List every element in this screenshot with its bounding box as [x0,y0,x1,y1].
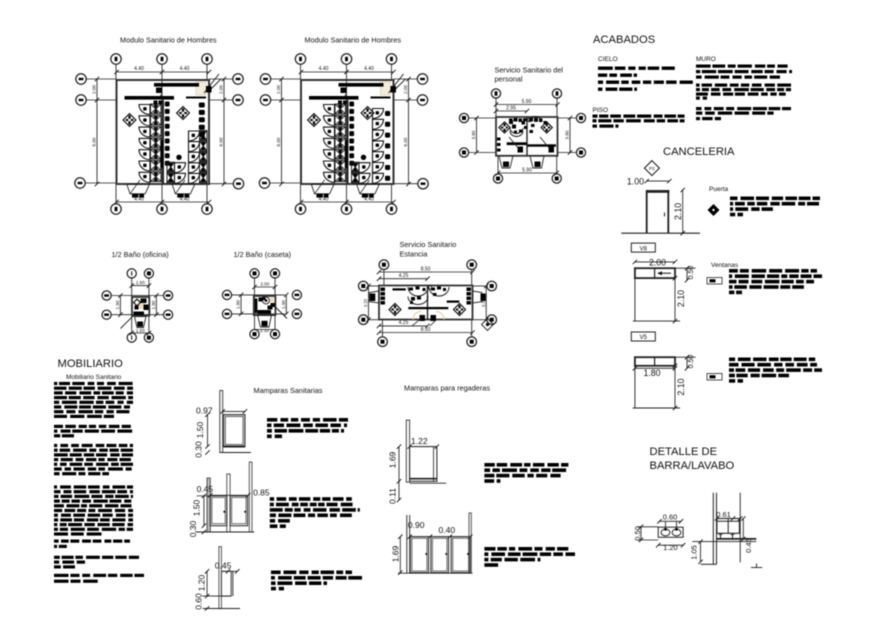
plan 1 bottom dimension 4.40 4.40 [117,201,210,203]
caseta door swing [275,307,287,319]
svg-text:1.60: 1.60 [136,280,145,285]
barra right line [739,493,741,563]
svg-text:1.60: 1.60 [136,328,145,333]
plan 2 grid bubbles left [260,74,270,84]
personal grid bubbles [491,89,500,98]
regadera 2 ground [398,572,473,574]
regadera 2 wall posts [406,515,408,573]
svg-text:4.40: 4.40 [180,66,190,72]
plan 2 middle wall [347,100,349,184]
personal threshold right [530,156,544,168]
svg-text:1.20: 1.20 [197,574,207,591]
estancia left dimension [368,286,370,320]
svg-text:6.00: 6.00 [92,137,97,146]
plan 2 black door block [391,86,397,93]
mampara 1 ground [220,452,251,454]
plan 2 room walls [301,80,394,184]
oficina threshold [135,317,147,328]
svg-text:6.00: 6.00 [219,137,224,146]
personal diamond drains [499,122,510,133]
V5 height dimension 0.50 [675,356,696,358]
svg-text:1.50: 1.50 [191,499,201,516]
svg-text:2.00: 2.00 [649,257,666,267]
V5 window elevation [635,357,675,366]
plan 1 top dimension 4.40 4.40 [117,71,210,73]
plan 2 grid lines [300,64,302,80]
plan 1 middle wall bar [160,140,163,168]
personal bottom dimension 5.90 [498,172,557,174]
oficina right dimension 1.90 [155,296,157,315]
plan 2 middle wc column [349,102,354,107]
estancia door swing diagonal [412,315,425,326]
svg-text:0.61: 0.61 [716,510,731,519]
text block MURO [696,65,711,68]
text block PISO [593,115,598,118]
personal fixtures top cluster [509,120,513,124]
plan 2 door swing lines bottom [315,180,325,194]
svg-text:PISO: PISO [593,107,609,114]
svg-text:0.97: 0.97 [196,406,213,416]
ventana icon V8 [707,278,722,285]
plan 2 floor drain [361,155,366,160]
barra supports [720,533,722,539]
door height dimension 2.10 [682,190,684,233]
plan 1 right stall column [189,131,200,141]
lavabo dim 0.50 [637,526,658,528]
plan 2 middle wall top blobs [338,101,342,105]
svg-text:6.00: 6.00 [403,137,408,146]
mampara 2 ground [196,531,254,533]
svg-text:Mamparas Sanitarias: Mamparas Sanitarias [254,386,323,395]
oficina grid bubbles [127,269,136,278]
svg-text:8.50: 8.50 [421,266,431,272]
estancia right counter bar [447,301,460,303]
svg-text:4.40: 4.40 [134,66,144,72]
caseta top dimension 2.00 [255,286,276,288]
plan 1 middle wall [162,100,164,184]
personal top dimension 5.90 [496,104,558,106]
oficina grid lines [131,278,133,333]
plan 1 bottom middle stalls [175,163,186,173]
estancia right protrusion [473,291,482,303]
text block mobiliario p7 [54,574,69,577]
svg-text:1.80: 1.80 [643,368,660,378]
svg-text:4.40: 4.40 [364,66,374,72]
V5 sill lines and 2.10 [634,366,636,408]
plan 1 black door block [206,86,212,93]
oficina bottom dimension 1.60 [132,332,149,334]
plan 1 grid bubbles top [111,54,121,64]
caseta grid lines [254,278,256,330]
caseta threshold [258,315,272,327]
caseta grid bubbles [250,269,259,278]
estancia left protrusion [370,291,380,303]
personal room walls [496,117,558,156]
svg-text:0.60: 0.60 [194,593,204,610]
svg-text:Puerta: Puerta [709,186,729,193]
svg-text:3.20: 3.20 [363,298,368,307]
personal left dimension 3.80 [476,118,478,153]
oficina top dimension 1.60 [132,285,149,287]
plan 1 cream door leaf [196,82,206,95]
estancia center fixtures [408,287,428,296]
text block mobiliario p1 [54,382,57,385]
svg-text:CANCELERIA: CANCELERIA [663,146,735,158]
P2 marker diamond [644,161,659,176]
plan 2 right stall column [373,109,384,119]
regadera 1 ground [410,482,447,484]
plan 2 grid bubbles top [295,54,305,64]
estancia cream door arcs [413,312,421,320]
lavabo sinks [661,529,670,536]
plan 1 door threshold right [172,184,195,194]
corner mark [756,564,758,568]
svg-text:0.60: 0.60 [663,513,678,522]
svg-text:0.90: 0.90 [408,520,425,530]
estancia left blob column [381,288,386,292]
plan 1 left stall column [139,105,150,115]
text block regaderas 2 [484,547,495,551]
mampara 3 panel [221,571,231,596]
estancia bottom dimension 8.50 [379,332,473,334]
svg-text:V8: V8 [640,246,648,252]
regadera 1 panel [410,447,437,482]
plan 1 room walls [117,80,210,184]
text block CIELO [598,67,613,70]
V5 label box [631,332,655,341]
plan 2 counter bar mid [309,96,359,100]
text block Ventanas V8 [729,269,738,273]
plan 1 diamond drain right [177,107,190,120]
svg-text:0.45: 0.45 [197,484,214,494]
V8 sill lines and 2.10 [634,278,636,321]
caseta room walls [254,296,276,315]
estancia left counter bar [393,288,406,290]
svg-text:MURO: MURO [696,56,716,63]
caseta interior fixtures [255,299,258,314]
regadera 2 panels [410,537,428,573]
plan 1 counter bar mid [125,96,175,100]
svg-text:0.50: 0.50 [633,526,642,541]
lavabo plan counter [658,527,683,537]
svg-text:2.00: 2.00 [403,85,408,94]
oficina door swing [121,316,134,329]
svg-text:0.50: 0.50 [688,355,695,369]
mampara 2 posts [207,478,210,532]
mampara 3 lines [202,595,231,597]
text block mobiliario p6 [54,556,60,559]
mampara 1 panel [224,415,245,447]
personal door blobs [518,147,524,153]
estancia grid lines [383,270,385,286]
svg-text:0.11: 0.11 [387,488,397,504]
barra dim 0.45 [741,516,745,520]
barra box [717,519,740,534]
text block mamparas B [270,497,274,501]
plan 2 left stall column [324,105,335,115]
personal top dimension 2.95 [496,110,527,112]
personal door swings [509,137,519,149]
plan 2 grid bubbles bottom [295,204,305,214]
svg-text:DETALLE DE: DETALLE DE [650,446,718,458]
text block mamparas A [267,418,277,422]
svg-text:Mobiliario Sanitario: Mobiliario Sanitario [66,374,122,381]
svg-text:personal: personal [495,75,523,84]
svg-text:5.90: 5.90 [522,167,532,173]
svg-text:1.90: 1.90 [281,300,286,309]
estancia top dimension 4.25 [379,278,428,280]
personal right dimension 3.80 [569,118,571,153]
oficina room walls [132,297,149,316]
plan 2 grid bubbles right [417,74,427,84]
plan 1 door blob [156,88,162,94]
barra section wall double line [712,493,714,565]
plan 1 door swing lines bottom [130,180,140,194]
door ground line [621,232,700,234]
svg-text:0.40: 0.40 [439,525,456,535]
personal grid lines [495,98,497,117]
plan 1 left dimension 2.00 6.00 [96,79,98,100]
svg-text:0.45: 0.45 [744,538,753,553]
svg-text:2.10: 2.10 [676,378,686,395]
V5 width dimension 1.80 [635,367,675,369]
mampara 3 post [219,547,222,609]
svg-text:1.69: 1.69 [391,545,401,562]
estancia middle wall [427,286,429,320]
estancia grid bubbles [379,260,389,270]
text block Ventanas V5 [729,358,735,362]
svg-text:3.80: 3.80 [471,130,476,139]
text block mamparas C [271,571,281,575]
mampara 1 post [220,391,223,453]
svg-text:2.00: 2.00 [276,85,281,94]
plan 1 middle wc column [165,102,170,107]
barra dim 1.05 [700,542,702,562]
plan 2 left dimension 2.00 6.00 [281,79,283,100]
svg-text:Ventanas: Ventanas [711,262,739,269]
svg-text:1.90: 1.90 [151,300,156,309]
estancia top dimension 8.50 [379,271,473,273]
personal counter bars [507,142,527,145]
plan 2 top dimension 4.40 4.40 [301,71,394,73]
V8 height dimension 0.50 [675,267,696,269]
svg-text:V5: V5 [640,335,648,341]
oficina interior fixtures [136,300,146,309]
svg-text:1.05: 1.05 [690,545,699,560]
plan 1 grid bubbles right [233,74,243,84]
svg-text:1/2 Baño (oficina): 1/2 Baño (oficina) [112,250,169,259]
svg-text:CIELO: CIELO [598,56,618,63]
plan 1 counter bar top [154,83,199,87]
svg-text:3.80: 3.80 [565,130,570,139]
svg-text:1.90: 1.90 [115,300,120,309]
svg-text:Estancia: Estancia [400,250,429,259]
barra counter lines [716,538,756,540]
svg-text:1.22: 1.22 [411,436,428,446]
plan 1 diamond drain left [123,114,136,127]
text block mobiliario p5 [54,540,59,543]
estancia right dimension [485,286,487,320]
plan 2 door blob [341,88,347,94]
plan 2 door threshold left [311,184,334,194]
estancia extra diamond bubble [482,319,494,331]
plan 2 bottom middle stalls [359,163,370,173]
estancia diamonds [389,304,401,316]
oficina left dimension 1.90 [119,296,121,315]
plan 2 middle wall bar [345,140,348,168]
text block regaderas 1 [484,463,494,467]
svg-text:5.90: 5.90 [522,99,532,105]
plan 1 door swing diagonals [204,74,219,93]
svg-text:2.10: 2.10 [260,328,269,333]
personal threshold left [499,156,513,168]
plan 1 floor drain [176,155,181,160]
plan 2 cream door leaf [381,82,391,95]
door elevation [647,190,670,193]
V8 label box [631,243,655,252]
estancia long bar [408,307,448,309]
svg-text:1.80: 1.80 [236,300,241,309]
svg-text:0.85: 0.85 [253,487,270,497]
svg-text:2.00: 2.00 [260,281,269,286]
lavabo dim 1.20 [658,544,683,546]
plan 2 diamond drain right [361,107,374,120]
plan 2 counter bar top [339,83,384,87]
svg-text:1.00: 1.00 [627,177,644,187]
svg-text:4.25: 4.25 [399,320,409,326]
svg-text:2.10: 2.10 [676,290,686,307]
personal left wall marks [497,138,501,141]
plan 1 middle wall top blobs [154,101,158,105]
svg-text:4.25: 4.25 [399,273,409,279]
regadera 1 post [406,420,409,482]
estancia bottom door blobs [420,315,426,321]
ventana icon V5 [707,374,722,381]
svg-text:ACABADOS: ACABADOS [593,34,655,46]
puerta icon diamond [708,204,720,216]
caseta right dimension 1.90 [285,295,287,314]
caseta left dimension 1.80 [240,295,242,314]
plan 2 right dimension 2.00 6.00 [408,79,410,100]
plan 2 bottom dimension 4.40 4.40 [301,201,394,203]
plan 1 right wc column [199,103,205,108]
text block mobiliario p4 [54,485,57,488]
plan 2 diamond drain left [308,114,321,127]
svg-text:BARRA/LAVABO: BARRA/LAVABO [650,460,735,472]
plan 1 right dimension 2.00 6.00 [223,79,225,100]
estancia room walls [379,286,473,320]
plan 1 grid lines [115,64,117,80]
text block mobiliario p3 [54,444,57,447]
svg-text:0.30: 0.30 [188,520,198,537]
text block Puerta [730,197,738,201]
personal middle wall [526,117,528,156]
svg-text:0.45: 0.45 [215,561,232,571]
svg-text:1.69: 1.69 [387,451,397,468]
svg-text:Servicio Sanitario del: Servicio Sanitario del [495,66,564,75]
svg-text:Modulo Sanitario de Hombres: Modulo Sanitario de Hombres [305,36,402,45]
regadera 1 dim 1.69 0.11 [398,447,400,482]
svg-text:6.00: 6.00 [276,137,281,146]
svg-text:1.50: 1.50 [195,421,205,438]
svg-text:2.10: 2.10 [673,203,683,220]
svg-text:4.40: 4.40 [319,66,329,72]
svg-text:1.20: 1.20 [663,543,678,552]
svg-text:MOBILIARIO: MOBILIARIO [58,358,124,370]
svg-text:Mamparas para regaderas: Mamparas para regaderas [404,384,490,393]
plan 2 door threshold right [357,184,380,194]
svg-text:2.95: 2.95 [506,105,516,111]
plan 1 door threshold left [127,184,150,194]
mampara 2 panel 1 [210,496,227,526]
svg-text:1/2 Baño (caseta): 1/2 Baño (caseta) [234,250,292,259]
svg-text:0.50: 0.50 [688,266,695,280]
V8 width dimension 2.00 [635,261,675,263]
svg-text:Modulo Sanitario de Hombres: Modulo Sanitario de Hombres [120,36,217,45]
svg-text:2.00: 2.00 [92,85,97,94]
regadera 2 dim 1.69 [399,537,401,573]
svg-text:8.50: 8.50 [421,327,431,333]
svg-text:Servicio Sanitario: Servicio Sanitario [400,240,457,249]
plan 2 door swing diagonals [389,74,404,93]
plan 1 grid bubbles left [76,74,86,84]
svg-text:2.00: 2.00 [219,85,224,94]
estancia bottom dimension 4.25 [379,325,428,327]
mampara 2 panel 2 [230,496,248,526]
plan 1 grid bubbles bottom [111,204,121,214]
svg-text:P2: P2 [649,166,655,172]
svg-text:0.30: 0.30 [194,441,204,458]
V8 window elevation [635,268,675,278]
text block mobiliario p2 [54,425,63,428]
estancia right blob column [467,288,472,292]
